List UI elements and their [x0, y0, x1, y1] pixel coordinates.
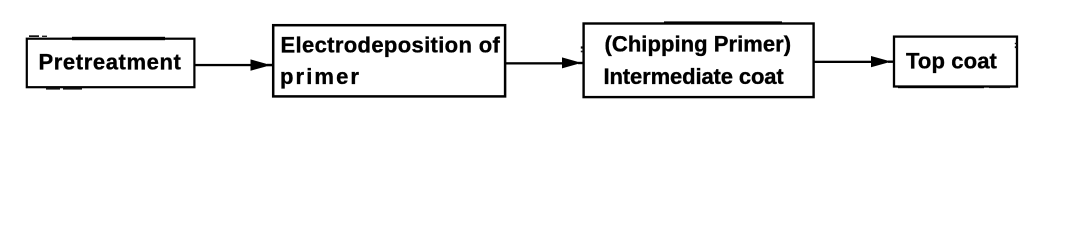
- scan artifact: nubs on box 4 right border: [1015, 43, 1017, 44]
- scan artifact: raised thick top segment of box 3: [664, 21, 782, 23]
- arrow 3: box 3 to box 4: [814, 56, 894, 67]
- svg-text:Electrodeposition of: Electrodeposition of: [281, 33, 501, 58]
- svg-text:primer: primer: [280, 64, 361, 89]
- svg-text:Pretreatment: Pretreatment: [39, 49, 182, 74]
- scan artifact: thick top segment of box 1: [72, 37, 165, 40]
- arrow 1: box 1 to box 2: [195, 59, 274, 70]
- scan artifact: nubs on box 3 left border: [581, 46, 583, 48]
- process box 3: (Chipping Primer) Intermediate coat: [581, 21, 814, 97]
- arrow 2: box 2 to box 3: [506, 57, 583, 68]
- svg-text:Intermediate coat: Intermediate coat: [604, 64, 785, 89]
- process box 1: Pretreatment: [27, 35, 195, 89]
- svg-text:(Chipping Primer): (Chipping Primer): [605, 32, 792, 57]
- process box 4: Top coat: [894, 37, 1017, 89]
- process box 2: Electrodeposition of primer: [273, 25, 505, 96]
- scan artifact: thick bottom smear of box 4: [898, 86, 984, 88]
- scan artifact: dashes below box 1 bottom: [46, 88, 60, 90]
- svg-text:Top coat: Top coat: [906, 48, 998, 73]
- scan artifact: ticks above box 1 top-left: [29, 35, 39, 37]
